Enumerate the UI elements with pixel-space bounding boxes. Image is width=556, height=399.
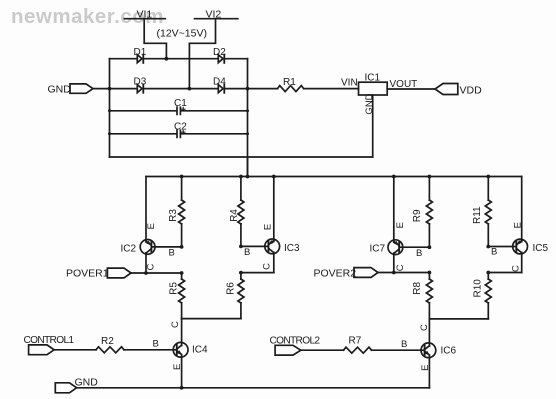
connector POVER1 xyxy=(66,268,131,280)
svg-text:(12V~15V): (12V~15V) xyxy=(157,28,208,40)
wire top rail xyxy=(146,176,522,178)
connector GND bottom xyxy=(55,377,98,393)
node right edge junction xyxy=(246,87,250,91)
svg-text:C: C xyxy=(146,263,157,270)
wire box right edge xyxy=(247,59,249,177)
wire R7 to IC6 base xyxy=(372,349,425,351)
op-amp IC1 voltage regulator xyxy=(341,73,417,115)
wire IC6 emitter to bottom rail xyxy=(428,355,430,388)
connector CONTROL2 xyxy=(270,336,321,356)
node VI1 junction xyxy=(165,57,169,61)
wire R2 to IC4 base xyxy=(124,349,177,351)
svg-text:C: C xyxy=(511,265,522,272)
svg-text:R3: R3 xyxy=(168,209,179,222)
wire IC1 GND down and left xyxy=(372,95,374,157)
transistor IC6 xyxy=(401,324,457,371)
node VI2 junction xyxy=(188,87,192,91)
transistor IC2 xyxy=(121,177,182,274)
wire to IC6 collector xyxy=(428,319,430,346)
svg-text:IC7: IC7 xyxy=(370,244,386,255)
wire POVER2 line xyxy=(378,272,429,274)
node IC7 collector junction xyxy=(392,271,396,275)
wire IC4 emitter to bottom rail xyxy=(181,355,183,388)
svg-text:IC3: IC3 xyxy=(284,243,300,254)
diode D4 xyxy=(213,77,226,93)
connector POVER2 xyxy=(314,268,379,280)
svg-text:GND: GND xyxy=(75,377,99,389)
connector VI2 xyxy=(195,9,238,21)
svg-text:D3: D3 xyxy=(134,77,147,88)
wire GND to box xyxy=(93,88,110,90)
svg-text:R4: R4 xyxy=(229,209,240,222)
wire IC3 collector to R6 xyxy=(241,272,274,274)
svg-text:POVER2: POVER2 xyxy=(314,268,357,280)
resistor R6 xyxy=(226,273,244,319)
wire box left edge xyxy=(109,59,111,157)
wire IC1 VOUT to VDD xyxy=(387,88,435,90)
svg-text:GND: GND xyxy=(48,84,72,96)
connector VDD xyxy=(435,84,482,97)
svg-text:R10: R10 xyxy=(473,279,484,298)
svg-text:R8: R8 xyxy=(412,281,423,294)
resistor R3 xyxy=(168,177,185,247)
node IC5 base junction xyxy=(486,245,490,249)
diode D1 xyxy=(134,47,147,63)
node IC4 emitter junction xyxy=(180,386,184,390)
resistor R5 xyxy=(169,273,185,319)
wire center vertical to rail xyxy=(247,157,249,177)
transistor IC3 xyxy=(241,177,300,273)
node IC3 base junction xyxy=(239,245,243,249)
svg-text:VIN: VIN xyxy=(341,78,358,89)
wire D3-D4 row xyxy=(110,88,278,90)
svg-text:E: E xyxy=(146,223,157,229)
svg-text:C: C xyxy=(395,264,406,271)
node R5 top junction xyxy=(180,271,184,275)
svg-text:VDD: VDD xyxy=(460,85,483,97)
node R10 top junction xyxy=(486,271,490,275)
svg-text:B: B xyxy=(416,248,422,259)
wire VI2 to D3-D4 row xyxy=(189,19,215,89)
connector CONTROL1 xyxy=(24,335,75,355)
wire IC5 collector to R10 xyxy=(488,272,521,274)
svg-text:R9: R9 xyxy=(412,209,423,222)
node R8 top junction xyxy=(428,271,432,275)
diode D3 xyxy=(134,77,147,93)
wire bottom rail xyxy=(77,387,430,389)
node IC2 collector junction xyxy=(144,271,148,275)
connector GND left xyxy=(48,84,94,96)
svg-text:B: B xyxy=(169,248,175,259)
svg-text:C: C xyxy=(170,321,181,328)
wire to IC4 collector xyxy=(181,319,183,346)
wire top line D1 D2 xyxy=(110,58,248,60)
svg-text:R7: R7 xyxy=(349,336,362,347)
transistor IC5 xyxy=(488,177,548,273)
node rail junctions xyxy=(180,175,490,179)
svg-text:IC2: IC2 xyxy=(121,244,137,255)
resistor R4 xyxy=(229,177,244,247)
resistor R7 xyxy=(344,336,372,354)
wire R5 R6 join xyxy=(182,318,241,320)
capacitor C1 xyxy=(108,98,249,114)
node IC7 base junction xyxy=(428,245,432,249)
svg-text:B: B xyxy=(401,339,407,350)
svg-text:E: E xyxy=(395,222,406,228)
capacitor C2 xyxy=(108,121,249,137)
svg-text:IC5: IC5 xyxy=(533,243,549,254)
svg-text:IC4: IC4 xyxy=(192,345,208,356)
svg-text:B: B xyxy=(153,339,159,350)
transistor IC7 xyxy=(370,177,430,273)
svg-text:E: E xyxy=(262,224,273,230)
svg-text:C: C xyxy=(419,324,430,331)
resistor R11 xyxy=(472,177,491,247)
resistor R10 xyxy=(473,273,492,319)
diode D2 xyxy=(213,47,226,63)
svg-text:R2: R2 xyxy=(101,336,114,347)
wire CONTROL2 to R7 xyxy=(301,349,344,351)
svg-text:E: E xyxy=(512,222,523,228)
connector VI1 xyxy=(124,9,165,21)
svg-text:B: B xyxy=(491,247,497,258)
svg-text:R11: R11 xyxy=(472,206,483,224)
svg-text:C: C xyxy=(261,263,272,270)
wire VI1 to top line xyxy=(144,19,166,59)
resistor R8 xyxy=(412,273,432,319)
resistor R1 xyxy=(278,77,359,92)
resistor R9 xyxy=(412,177,432,248)
svg-text:R6: R6 xyxy=(226,282,237,295)
wire CONTROL1 to R2 xyxy=(54,349,96,351)
resistor R2 xyxy=(96,336,124,353)
wire box bottom xyxy=(110,156,373,158)
node GND junction xyxy=(108,87,112,91)
svg-text:B: B xyxy=(244,247,250,258)
node R6 top junction xyxy=(239,271,243,275)
transistor IC4 xyxy=(153,321,209,370)
svg-text:IC6: IC6 xyxy=(441,346,457,357)
wire POVER1 line xyxy=(131,272,182,274)
node IC2 base junction xyxy=(180,245,184,249)
wire R8 R10 join xyxy=(429,318,488,320)
svg-text:POVER1: POVER1 xyxy=(66,268,109,280)
